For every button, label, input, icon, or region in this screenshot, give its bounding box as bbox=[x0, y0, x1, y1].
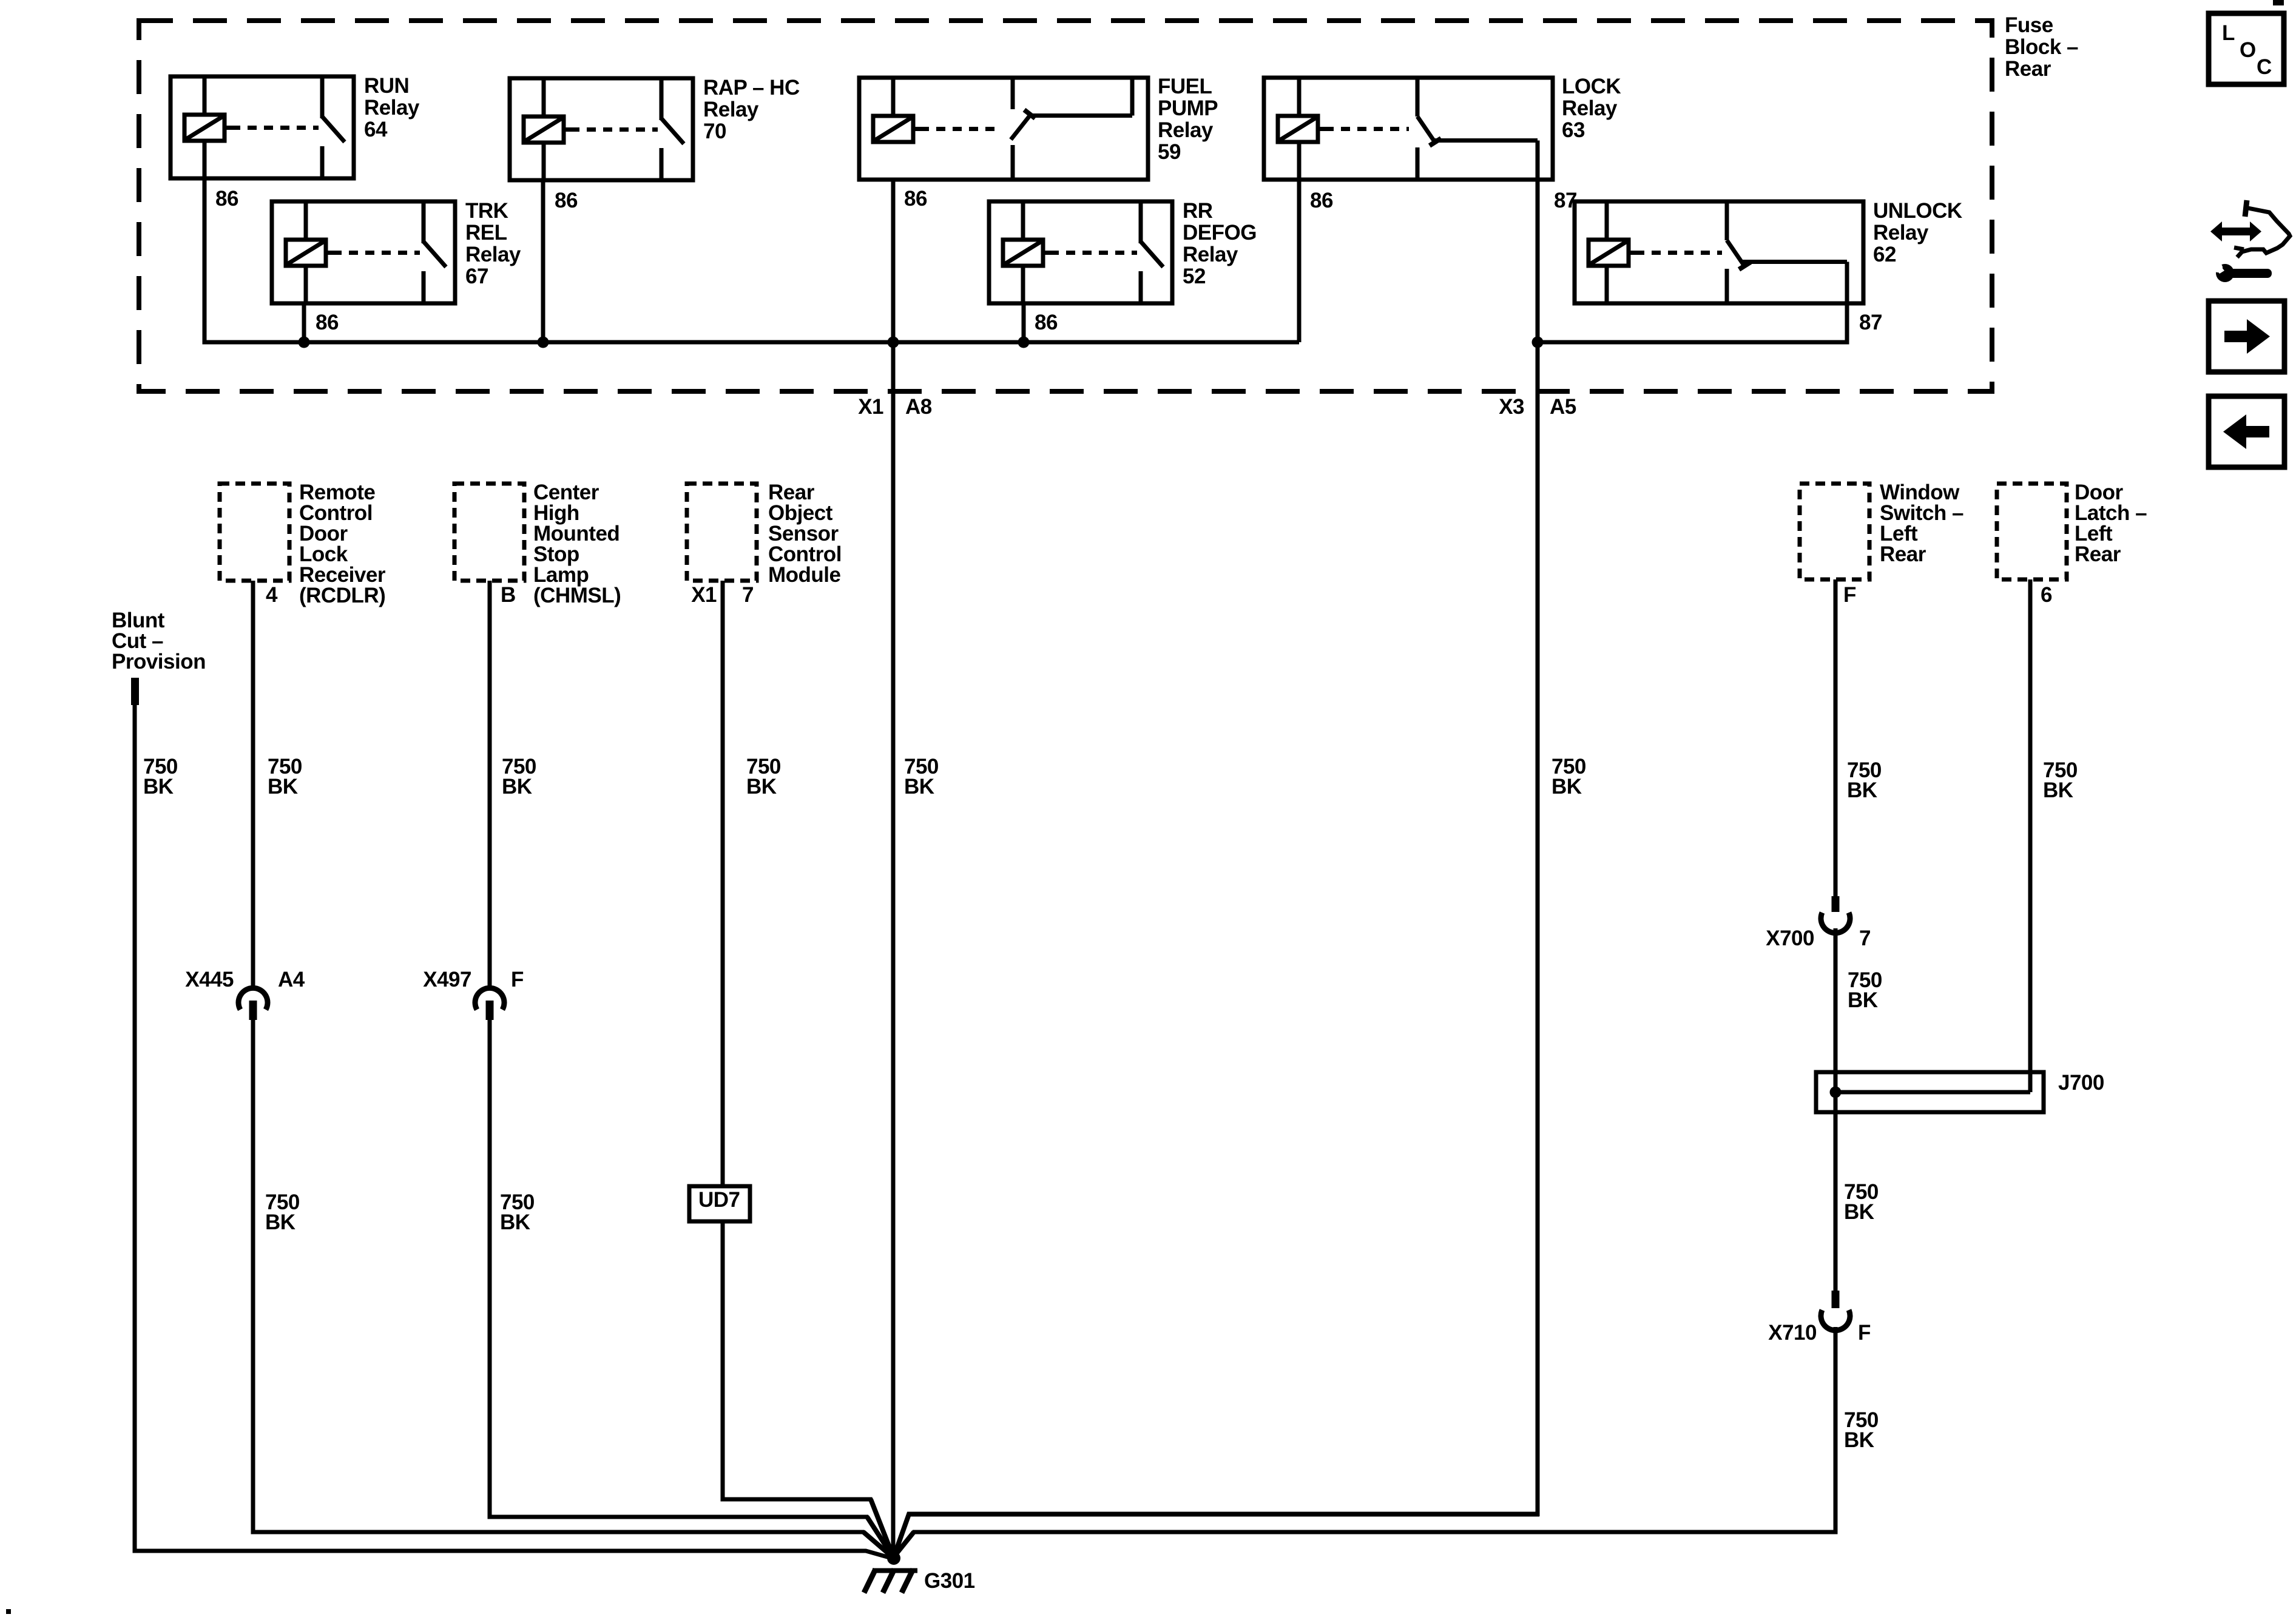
junction J700 bbox=[1830, 1087, 1842, 1098]
wire Door Latch pin6 750 BK bbox=[2028, 579, 2033, 1092]
svg-text:87: 87 bbox=[1859, 311, 1882, 334]
svg-text:7: 7 bbox=[742, 583, 754, 607]
svg-text:X710: X710 bbox=[1768, 1321, 1817, 1345]
wire A5 750 BK bbox=[894, 1514, 1539, 1558]
svg-text:F: F bbox=[1858, 1321, 1871, 1345]
splice pack J700 bbox=[1816, 1072, 2044, 1112]
wire X710 to ground 750 BK bbox=[894, 1327, 1835, 1557]
page artifact bottom left bbox=[6, 1609, 11, 1614]
relay TRK REL Relay 67 bbox=[272, 201, 455, 303]
svg-text:750BK: 750BK bbox=[1844, 1408, 1879, 1452]
svg-text:F: F bbox=[1843, 583, 1856, 607]
wire A8 750 BK bbox=[891, 180, 896, 1559]
inline connector X700 bbox=[1832, 896, 1840, 912]
wire X445 to ground 750 BK bbox=[253, 1020, 894, 1558]
svg-text:A5: A5 bbox=[1550, 395, 1576, 419]
wire TRK REL 86 drop bbox=[302, 303, 306, 342]
wire 87 link bbox=[1536, 141, 1540, 1517]
svg-text:86: 86 bbox=[215, 187, 238, 211]
svg-text:X1: X1 bbox=[858, 395, 883, 419]
connector Center High Mounted Stop Lamp bbox=[454, 484, 524, 581]
svg-text:J700: J700 bbox=[2058, 1071, 2104, 1095]
svg-text:X497: X497 bbox=[423, 968, 471, 991]
wire RR DEFOG 86 drop bbox=[1022, 303, 1026, 342]
svg-text:750BK: 750BK bbox=[2043, 758, 2078, 802]
svg-text:750BK: 750BK bbox=[143, 755, 178, 798]
svg-text:750BK: 750BK bbox=[904, 755, 939, 798]
connector Door Latch Left Rear bbox=[1997, 484, 2067, 579]
inline connector X497 bbox=[475, 988, 504, 1010]
svg-text:86: 86 bbox=[904, 187, 927, 211]
svg-text:86: 86 bbox=[555, 189, 578, 212]
fuse UD7 box bbox=[689, 1186, 750, 1221]
wire RAP-HC 86 drop bbox=[541, 180, 545, 342]
svg-text:F: F bbox=[511, 968, 524, 991]
connector Remote Control Door Lock Receiver bbox=[220, 484, 289, 581]
relay UNLOCK Relay 62 bbox=[1575, 201, 1863, 303]
junction TRK REL 86 bbox=[299, 337, 310, 348]
inline connector X445 bbox=[238, 988, 268, 1010]
inline connector X710 bbox=[1832, 1291, 1840, 1308]
svg-text:86: 86 bbox=[316, 311, 339, 334]
svg-text:O: O bbox=[2240, 38, 2256, 62]
page artifact top right bbox=[2273, 0, 2284, 5]
wire 86 bus bbox=[203, 180, 207, 340]
svg-text:750BK: 750BK bbox=[500, 1190, 535, 1234]
svg-text:86: 86 bbox=[1035, 311, 1058, 334]
junction FUEL PUMP 86 / A8 bbox=[888, 337, 899, 348]
blunt cut terminal bbox=[131, 678, 139, 705]
junction 87 link bbox=[1532, 337, 1544, 348]
svg-text:750BK: 750BK bbox=[1844, 1180, 1879, 1224]
relay FUEL PUMP Relay 59 bbox=[859, 78, 1148, 180]
wire X700 to J700 750 BK bbox=[1834, 928, 1838, 1291]
svg-text:750BK: 750BK bbox=[268, 755, 302, 798]
connector Window Switch Left Rear bbox=[1800, 484, 1869, 579]
relay RUN Relay 64 bbox=[171, 76, 354, 178]
svg-text:L: L bbox=[2222, 21, 2235, 45]
junction RAP-HC 86 bbox=[538, 337, 549, 348]
svg-text:750BK: 750BK bbox=[1848, 968, 1882, 1012]
svg-text:7: 7 bbox=[1859, 927, 1871, 950]
svg-text:C: C bbox=[2257, 55, 2272, 79]
fuse block rear dashed outline bbox=[139, 21, 1992, 391]
relay RAP-HC Relay 70 bbox=[510, 78, 693, 180]
connector Rear Object Sensor Control Module bbox=[687, 484, 757, 581]
svg-text:750BK: 750BK bbox=[1847, 758, 1882, 802]
wire blunt cut 750 BK bbox=[135, 705, 894, 1559]
svg-text:UD7: UD7 bbox=[698, 1188, 740, 1212]
wire X497 to ground 750 BK bbox=[490, 1020, 894, 1558]
relay RR DEFOG Relay 52 bbox=[989, 201, 1172, 303]
relay LOCK Relay 63 bbox=[1264, 78, 1553, 180]
svg-text:X445: X445 bbox=[185, 968, 234, 991]
svg-text:750BK: 750BK bbox=[1551, 755, 1586, 798]
svg-text:B: B bbox=[501, 583, 516, 607]
icon arrow left box bbox=[2209, 396, 2284, 467]
svg-text:X700: X700 bbox=[1766, 927, 1814, 950]
ground G301 convergence bbox=[887, 1551, 900, 1565]
svg-text:750BK: 750BK bbox=[265, 1190, 300, 1234]
svg-text:86: 86 bbox=[1310, 189, 1333, 212]
svg-text:X3: X3 bbox=[1499, 395, 1524, 419]
svg-text:G301: G301 bbox=[924, 1569, 975, 1593]
wire Window Switch pinF 750 BK bbox=[1834, 579, 1838, 896]
icon arrow right box bbox=[2209, 301, 2284, 372]
svg-text:A8: A8 bbox=[905, 395, 932, 419]
icon service panel outline bbox=[2245, 200, 2247, 217]
icon LOC box bbox=[2209, 13, 2284, 84]
svg-text:750BK: 750BK bbox=[746, 755, 781, 798]
icon service wrench bbox=[2216, 264, 2234, 282]
wire UD7 to ground bbox=[723, 1221, 894, 1558]
svg-text:750BK: 750BK bbox=[502, 755, 536, 798]
svg-text:X1: X1 bbox=[691, 583, 717, 607]
wire RCDLR pin4 750 BK bbox=[251, 581, 255, 990]
wire CHMSL pinB 750 BK bbox=[488, 581, 492, 990]
svg-text:6: 6 bbox=[2041, 583, 2052, 607]
junction RR DEFOG 86 bbox=[1018, 337, 1030, 348]
ground symbol G301 bbox=[873, 1568, 917, 1573]
svg-text:A4: A4 bbox=[278, 968, 305, 991]
icon service double arrow bbox=[2220, 228, 2252, 235]
svg-text:4: 4 bbox=[266, 583, 278, 607]
wire ROS pin7 750 BK bbox=[721, 581, 725, 1186]
